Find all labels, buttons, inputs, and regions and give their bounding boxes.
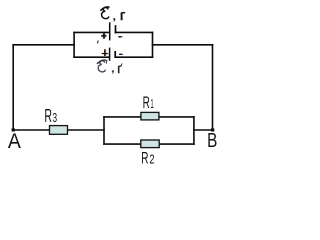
label EMF 2: script E' [97, 60, 107, 72]
svg-text:R: R [141, 149, 148, 168]
stray comma near cell 1 [96, 41, 99, 43]
wire left vertical from top-left corner down to node A [12, 45, 14, 130]
wire bottom from node A to parallel box [13, 129, 104, 131]
svg-text:2: 2 [149, 153, 154, 167]
plus sign cell 1 [101, 33, 107, 38]
svg-text:R: R [44, 106, 52, 126]
plus sign cell 2 [102, 49, 109, 56]
battery cell 1 plates [110, 22, 116, 40]
minus sign cell 2 [119, 53, 123, 55]
node A [12, 128, 15, 131]
wire parallel box to node B [194, 129, 213, 131]
resistor R2 [141, 140, 159, 148]
wire parallel top branch [104, 116, 194, 118]
resistor R3 [50, 126, 68, 135]
wire top branch right of cell 1 [116, 31, 153, 33]
wire bottom branch left of cell 2 [74, 56, 109, 58]
parallel box right edge [193, 117, 195, 144]
battery box left edge [73, 32, 75, 57]
wire bottom branch right of cell 2 [115, 56, 152, 58]
wire top-left horizontal to battery box [13, 44, 74, 46]
resistor R1 [141, 112, 159, 120]
svg-text:1: 1 [151, 97, 154, 111]
wire parallel bottom branch [104, 143, 194, 145]
svg-text:A: A [8, 130, 21, 153]
node B [211, 128, 214, 131]
svg-text:R: R [143, 93, 150, 112]
battery box right edge [152, 32, 154, 57]
minus sign cell 1 [118, 36, 122, 38]
parallel box left edge [103, 117, 105, 144]
wire top branch left of cell 1 [74, 31, 109, 33]
label EMF 1: script E [101, 7, 109, 19]
wire right vertical down to node B [212, 45, 214, 130]
svg-text:3: 3 [53, 111, 58, 125]
label EMF 1: r (internal resistance) [121, 13, 125, 20]
svg-text:B: B [207, 129, 217, 152]
label EMF 1: comma [113, 18, 115, 22]
label EMF 2: r' (internal resistance) [118, 64, 122, 73]
label EMF 2: comma [112, 70, 114, 74]
battery cell 2 plates [110, 48, 116, 61]
wire top-right horizontal [153, 44, 213, 46]
